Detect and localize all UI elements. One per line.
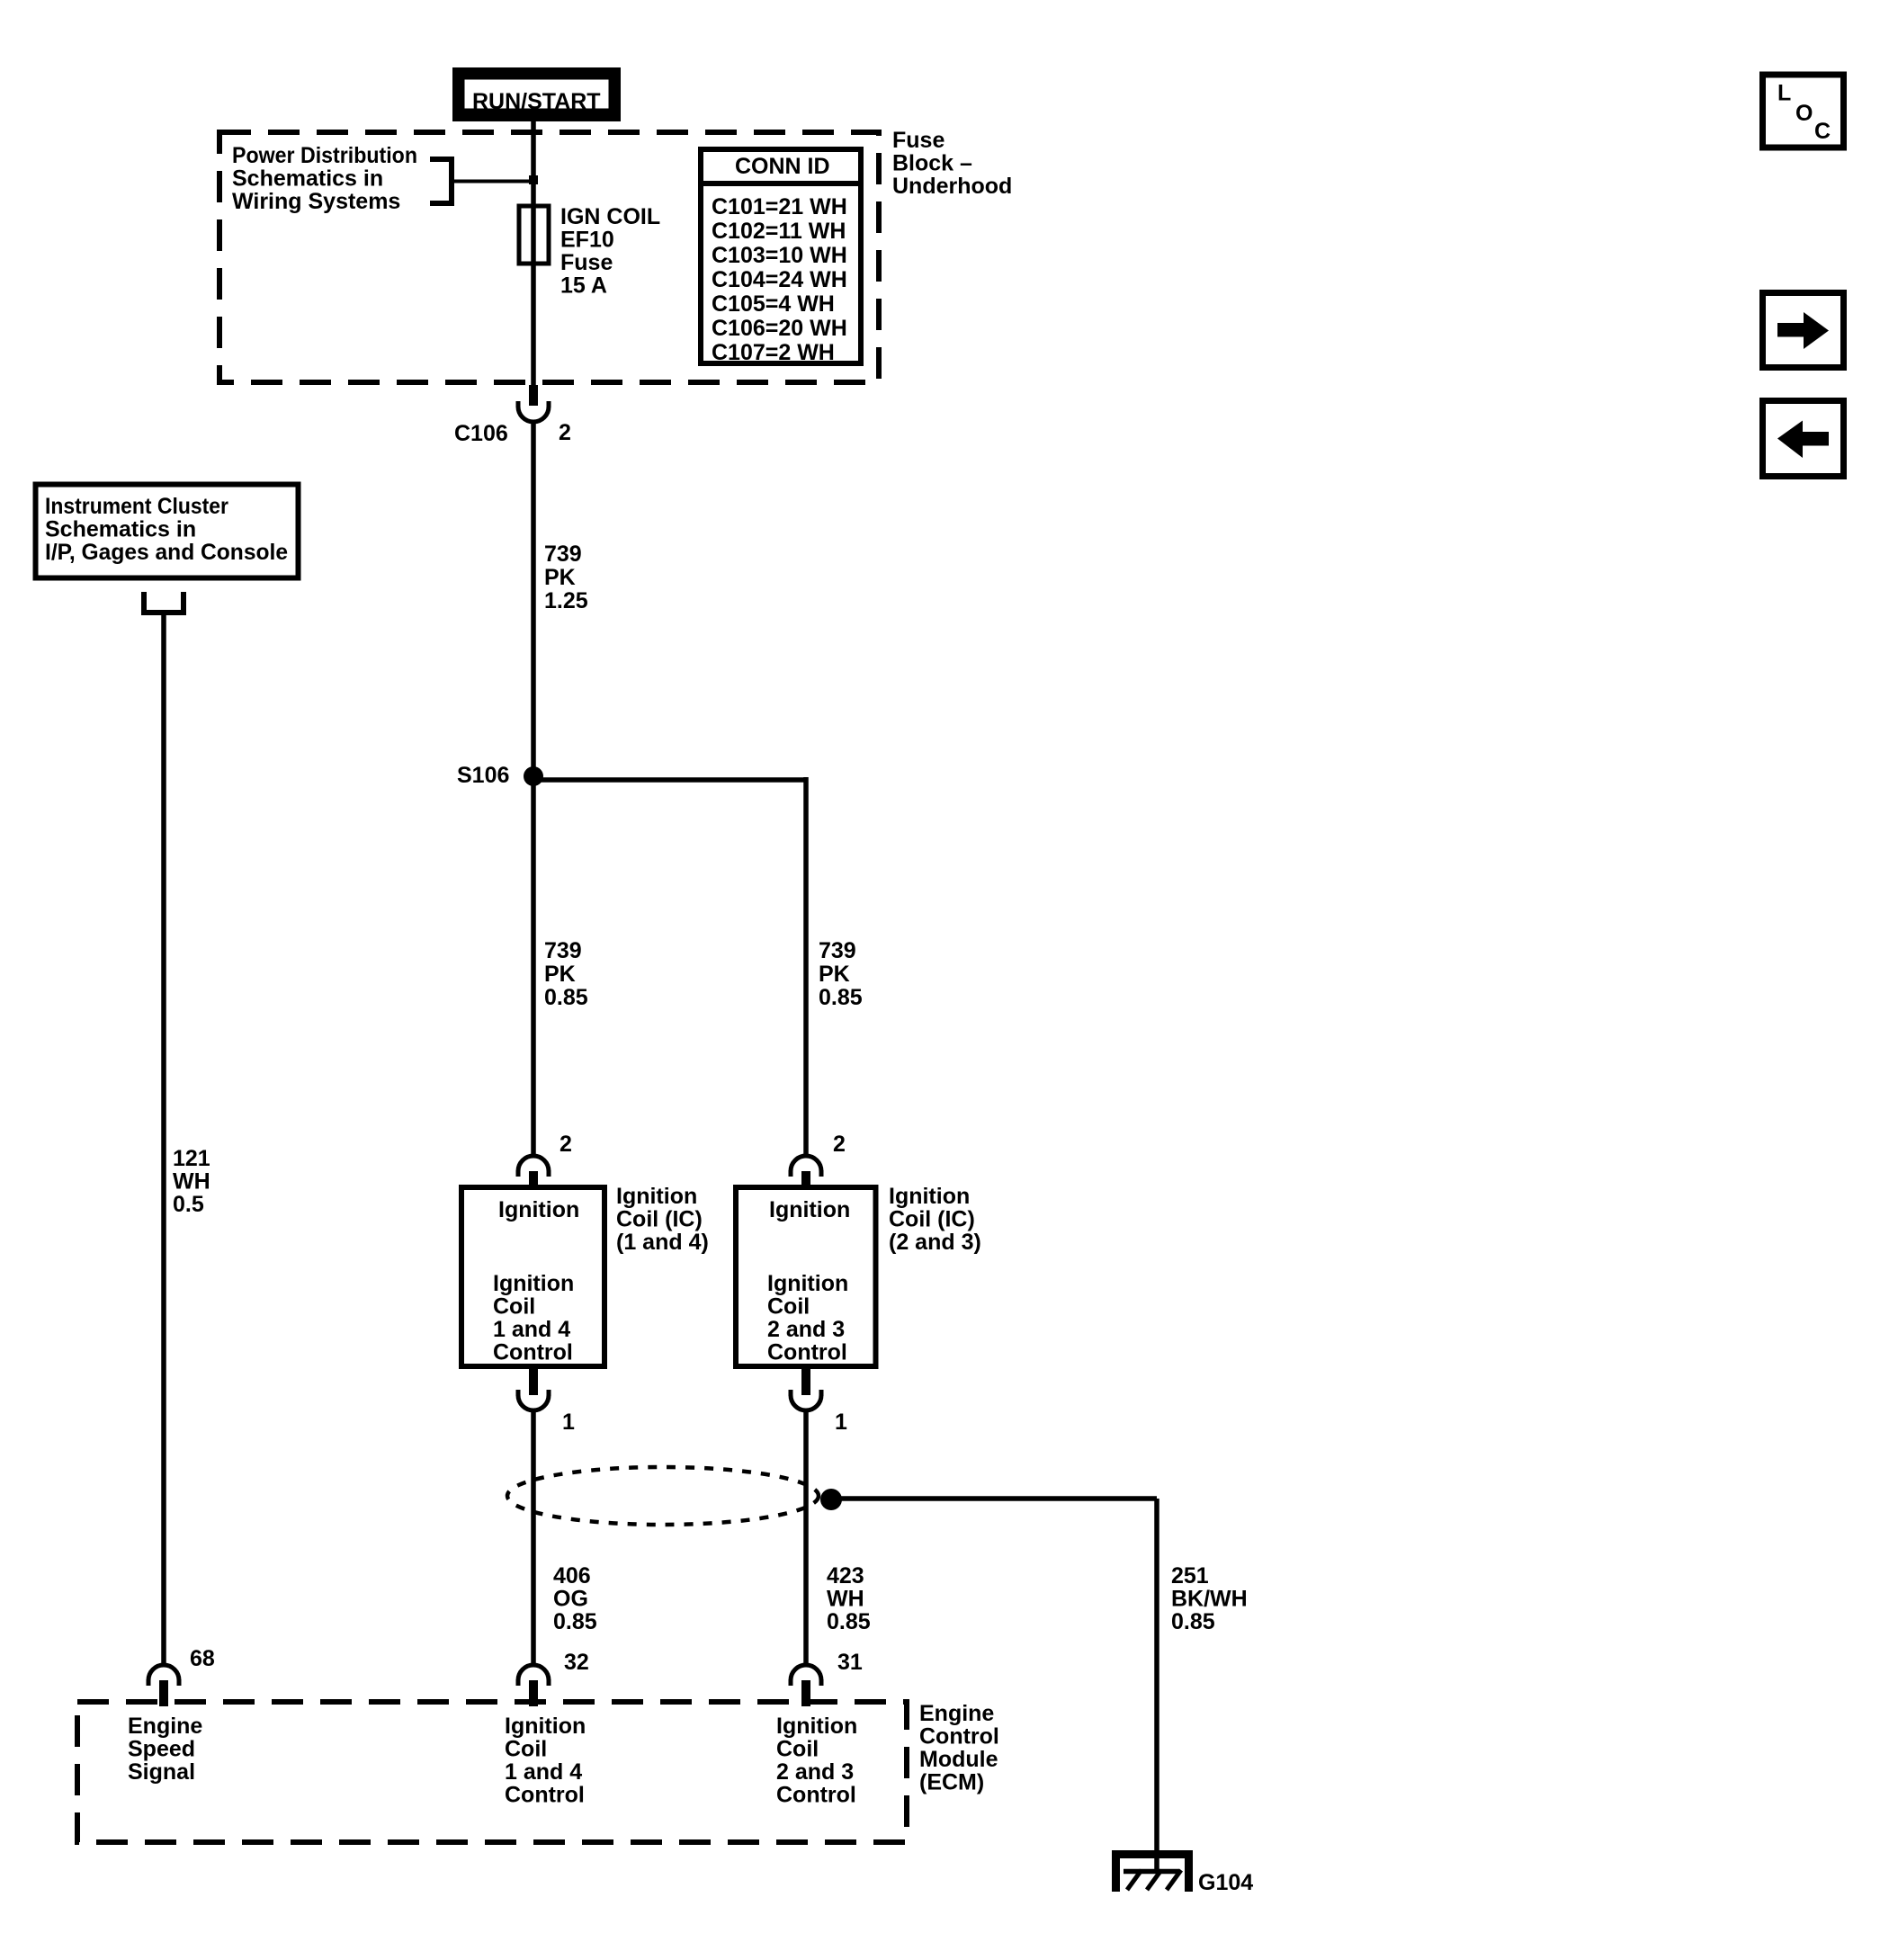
svg-text:Coil: Coil	[767, 1294, 810, 1320]
svg-text:31: 31	[837, 1650, 863, 1675]
svg-text:Instrument Cluster: Instrument Cluster	[45, 494, 228, 519]
svg-text:(ECM): (ECM)	[919, 1770, 984, 1795]
svg-text:C106: C106	[454, 421, 508, 446]
svg-text:OG: OG	[553, 1587, 588, 1612]
svg-text:Fuse: Fuse	[560, 250, 613, 275]
svg-text:Schematics in: Schematics in	[45, 517, 196, 542]
svg-text:C106=20 WH: C106=20 WH	[712, 316, 847, 341]
svg-text:Engine: Engine	[128, 1714, 202, 1739]
svg-text:Ignition: Ignition	[769, 1197, 850, 1222]
svg-text:0.85: 0.85	[544, 985, 588, 1010]
svg-text:C102=11 WH: C102=11 WH	[712, 219, 846, 244]
svg-text:Underhood: Underhood	[892, 174, 1012, 199]
svg-text:739: 739	[544, 541, 582, 567]
svg-text:Control: Control	[505, 1783, 585, 1808]
svg-text:WH: WH	[173, 1169, 210, 1195]
svg-text:Coil (IC): Coil (IC)	[616, 1207, 703, 1232]
svg-text:Ignition: Ignition	[616, 1184, 697, 1209]
svg-text:Control: Control	[776, 1783, 856, 1808]
svg-text:1: 1	[562, 1410, 575, 1435]
svg-text:IGN COIL: IGN COIL	[560, 204, 660, 229]
svg-text:15 A: 15 A	[560, 273, 607, 299]
svg-text:1 and 4: 1 and 4	[505, 1759, 582, 1785]
svg-text:O: O	[1795, 101, 1813, 126]
svg-text:I/P, Gages and Console: I/P, Gages and Console	[45, 540, 288, 565]
svg-text:0.85: 0.85	[1171, 1609, 1215, 1634]
svg-text:PK: PK	[819, 962, 850, 987]
svg-text:C103=10 WH: C103=10 WH	[712, 243, 847, 268]
svg-text:Coil: Coil	[776, 1737, 819, 1762]
svg-text:Schematics in: Schematics in	[232, 166, 383, 192]
svg-text:2: 2	[560, 1132, 572, 1157]
svg-text:S106: S106	[457, 763, 509, 788]
svg-text:68: 68	[190, 1646, 215, 1671]
svg-text:Signal: Signal	[128, 1759, 195, 1785]
svg-text:406: 406	[553, 1563, 591, 1589]
svg-text:Coil: Coil	[493, 1294, 535, 1320]
svg-text:Power Distribution: Power Distribution	[232, 143, 417, 168]
svg-text:423: 423	[827, 1563, 864, 1589]
svg-text:WH: WH	[827, 1587, 864, 1612]
svg-text:Control: Control	[767, 1340, 847, 1365]
svg-text:G104: G104	[1198, 1870, 1253, 1895]
svg-text:0.5: 0.5	[173, 1192, 204, 1217]
svg-text:L: L	[1777, 81, 1791, 106]
svg-text:Block –: Block –	[892, 151, 972, 176]
svg-text:739: 739	[819, 938, 856, 963]
svg-text:C107=2 WH: C107=2 WH	[712, 340, 835, 365]
svg-text:CONN ID: CONN ID	[735, 154, 830, 179]
svg-text:0.85: 0.85	[553, 1609, 597, 1634]
svg-text:2 and 3: 2 and 3	[767, 1317, 845, 1342]
svg-text:Coil (IC): Coil (IC)	[889, 1207, 975, 1232]
svg-text:Coil: Coil	[505, 1737, 547, 1762]
svg-text:Ignition: Ignition	[505, 1714, 586, 1739]
svg-text:1 and 4: 1 and 4	[493, 1317, 570, 1342]
svg-text:Ignition: Ignition	[767, 1271, 848, 1296]
svg-text:C104=24 WH: C104=24 WH	[712, 267, 847, 292]
svg-text:Ignition: Ignition	[889, 1184, 970, 1209]
svg-text:Control: Control	[493, 1340, 573, 1365]
svg-text:739: 739	[544, 938, 582, 963]
svg-text:C105=4 WH: C105=4 WH	[712, 291, 835, 317]
svg-text:1.25: 1.25	[544, 588, 588, 613]
svg-text:121: 121	[173, 1146, 210, 1171]
svg-text:Engine: Engine	[919, 1701, 994, 1726]
svg-text:Ignition: Ignition	[493, 1271, 574, 1296]
svg-text:Module: Module	[919, 1747, 998, 1772]
svg-text:Control: Control	[919, 1724, 999, 1750]
svg-text:C101=21 WH: C101=21 WH	[712, 194, 847, 219]
svg-text:0.85: 0.85	[827, 1609, 871, 1634]
svg-text:RUN/START: RUN/START	[472, 89, 601, 114]
svg-text:(1 and 4): (1 and 4)	[616, 1230, 709, 1255]
svg-text:(2 and 3): (2 and 3)	[889, 1230, 981, 1255]
svg-text:Fuse: Fuse	[892, 128, 944, 153]
svg-text:Ignition: Ignition	[776, 1714, 857, 1739]
svg-text:0.85: 0.85	[819, 985, 863, 1010]
svg-text:251: 251	[1171, 1563, 1209, 1589]
svg-text:PK: PK	[544, 962, 576, 987]
svg-text:2: 2	[559, 420, 571, 445]
svg-text:32: 32	[564, 1650, 589, 1675]
svg-text:2: 2	[833, 1132, 846, 1157]
svg-text:BK/WH: BK/WH	[1171, 1587, 1248, 1612]
svg-text:2 and 3: 2 and 3	[776, 1759, 854, 1785]
svg-text:EF10: EF10	[560, 228, 614, 253]
svg-text:PK: PK	[544, 565, 576, 590]
svg-text:Speed: Speed	[128, 1737, 195, 1762]
svg-text:Ignition: Ignition	[498, 1197, 579, 1222]
svg-text:1: 1	[835, 1410, 847, 1435]
svg-text:C: C	[1814, 119, 1831, 144]
svg-text:Wiring Systems: Wiring Systems	[232, 189, 400, 214]
